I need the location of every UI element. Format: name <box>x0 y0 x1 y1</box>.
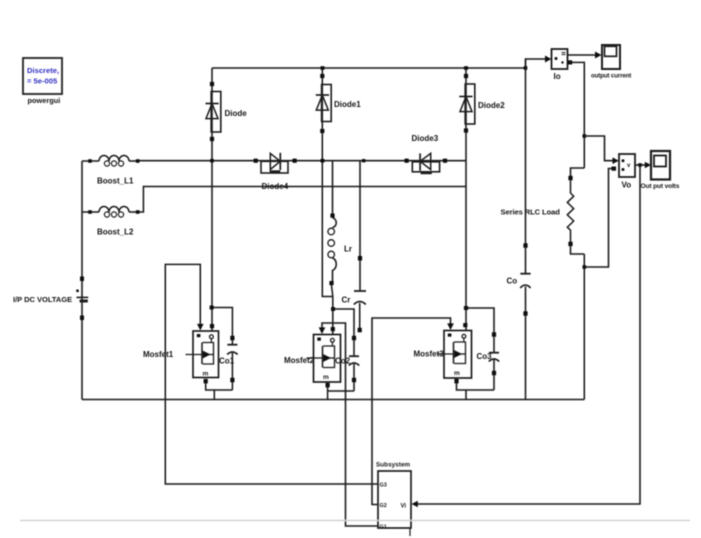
wire: gate signal port2 to Mosfet3 <box>372 318 451 505</box>
mosfet Mosfet2 block <box>307 335 341 383</box>
wire: Mosfet2 drain pad <box>331 327 335 331</box>
block Vo voltage measurement <box>619 154 635 177</box>
svg-text:output current: output current <box>591 73 631 80</box>
svg-text:Cr: Cr <box>342 296 351 305</box>
svg-text:I/P DC VOLTAGE: I/P DC VOLTAGE <box>13 295 72 304</box>
svg-text:Series RLC Load: Series RLC Load <box>501 208 561 217</box>
svg-text:m: m <box>454 370 460 377</box>
svg-text:Mosfet2: Mosfet2 <box>284 356 315 365</box>
DC source I/P DC VOLTAGE <box>76 277 88 321</box>
svg-text:Co2: Co2 <box>335 357 351 366</box>
wire: Vo minus branch <box>583 167 617 269</box>
block Subsystem <box>378 471 411 536</box>
scan artifact line <box>20 520 690 522</box>
capacitor Co3 <box>464 306 499 390</box>
diode Diode2 (column 3, vertical) <box>459 68 475 331</box>
svg-text:Diode3: Diode3 <box>412 134 439 143</box>
wire: middle bus1 (L1 to Diode2 column) <box>138 160 466 162</box>
inductor Boost_L2 <box>82 207 140 218</box>
svg-text:Diode1: Diode1 <box>334 100 361 109</box>
block powergui <box>23 58 62 94</box>
wire: Mosfet3 drain pad <box>463 323 467 327</box>
capacitor Cr <box>354 161 366 333</box>
node: bus1 junctions <box>210 159 365 163</box>
wire: gate signal port1 to Mosfet1 <box>165 264 378 484</box>
svg-text:Diode4: Diode4 <box>262 182 289 191</box>
wire: arrowhead into scope2 <box>645 162 651 169</box>
wire: arrowhead into scope1 <box>595 52 602 59</box>
wire: branch to Vo plus <box>583 134 614 161</box>
svg-text:Vi: Vi <box>401 504 407 510</box>
mosfet Mosfet3 block <box>437 331 472 379</box>
wire: Mosfet1 drain pad <box>210 324 214 328</box>
svg-text:Discrete,: Discrete, <box>27 66 59 75</box>
svg-text:Io: Io <box>554 72 561 81</box>
wire: feedback from Vo output down to Subsystem Vi <box>418 163 642 504</box>
svg-text:Diode2: Diode2 <box>478 101 505 110</box>
wire: gate arrow Mosfet1 <box>197 324 204 331</box>
capacitor Co1 <box>210 306 238 391</box>
wire: gate arrow Mosfet2 <box>319 327 326 334</box>
wire: gate arrow Mosfet3 <box>447 323 454 330</box>
svg-text:Diode: Diode <box>225 109 248 118</box>
svg-text:Mosfet3: Mosfet3 <box>414 350 445 359</box>
capacitor Co2 <box>331 307 359 391</box>
svg-text:Co3: Co3 <box>477 352 493 361</box>
svg-text:powergui: powergui <box>28 96 61 105</box>
wire: Vo output to scope2 <box>635 164 646 166</box>
svg-text:m: m <box>323 374 329 381</box>
diode Diode4 (horizontal, in bus1) <box>254 153 297 173</box>
node: top bus junctions <box>321 66 528 70</box>
diode Diode1 (column 2, vertical) <box>316 68 333 297</box>
wire: top bus to Io input <box>526 59 546 68</box>
wire: arrow into Vi input <box>412 501 418 508</box>
wire: middle bus2 (L2 to Diode2 column) <box>138 187 466 213</box>
svg-text:Co: Co <box>507 277 518 286</box>
svg-text:Vo: Vo <box>622 181 632 190</box>
svg-text:Lr: Lr <box>344 245 352 254</box>
svg-text:G3: G3 <box>380 483 387 489</box>
wire: Mosfet3 source and loop <box>454 379 494 400</box>
svg-text:Boost_L2: Boost_L2 <box>97 228 134 237</box>
mosfet Mosfet1 block <box>186 331 219 378</box>
capacitor Co (output column) <box>520 59 530 400</box>
inductor Boost_L1 <box>82 156 140 167</box>
svg-text:Boost_L1: Boost_L1 <box>97 177 134 186</box>
scope Out put volts <box>651 151 670 180</box>
wire: Mosfet1 source + loop to bus <box>204 379 233 400</box>
wire: arrow into Io <box>545 56 551 63</box>
svg-text:Out put volts: Out put volts <box>641 183 680 190</box>
svg-text:G2: G2 <box>380 503 387 509</box>
block Io current measurement <box>552 49 568 69</box>
wire: Io lower terminal to load column <box>568 60 584 168</box>
svg-text:Co1: Co1 <box>219 357 235 366</box>
svg-text:Mosfet1: Mosfet1 <box>143 350 174 359</box>
wire: gate signal port3 to Mosfet2 <box>322 323 378 526</box>
svg-text:m: m <box>203 371 209 378</box>
wire: top bus <box>212 67 526 69</box>
wire: left source vertical <box>81 161 83 400</box>
wire: Mosfet2 source drop and loop <box>326 383 355 400</box>
resistor Series RLC Load <box>567 168 584 400</box>
wire: Io to output current scope <box>568 54 596 56</box>
svg-text:Subsystem: Subsystem <box>376 462 410 469</box>
svg-text:= 5e-005: = 5e-005 <box>27 77 58 86</box>
diode Diode (column 1, vertical) <box>206 68 221 331</box>
wire: arrow into Vo plus <box>613 157 619 164</box>
svg-text:v: v <box>627 163 631 169</box>
scope output current <box>602 45 620 69</box>
inductor Lr (vertical) <box>328 161 336 335</box>
svg-text:G1: G1 <box>380 525 387 531</box>
diode Diode3 (horizontal, in bus1) <box>405 153 448 173</box>
wire: bottom bus <box>82 399 584 401</box>
